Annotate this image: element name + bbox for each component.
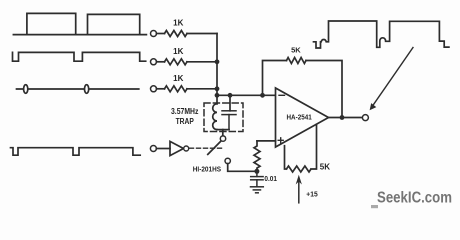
input terminal row 4 (gate) <box>150 146 156 152</box>
wire R1 to bus <box>187 33 217 35</box>
waveform W3 (burst line, row 3) <box>17 85 139 94</box>
svg-text:+15: +15 <box>306 189 317 198</box>
svg-text:1K: 1K <box>173 74 183 83</box>
svg-text:5K: 5K <box>320 162 330 171</box>
waveform W1 (luminance pulses, row 1) <box>13 13 146 34</box>
capacitor C1 (trap cap) <box>222 111 236 130</box>
resistor R5 5K (feedback) <box>287 58 307 64</box>
inductor L1 <box>213 104 217 130</box>
dashed control line <box>190 147 225 149</box>
wire row3 terminal to R3 <box>157 88 165 90</box>
wire trap bottom lead <box>222 130 224 136</box>
junction cap node <box>254 169 259 174</box>
junction bus corner <box>215 93 220 98</box>
wire feedback loop <box>263 61 343 118</box>
svg-text:5K: 5K <box>291 46 301 55</box>
wire row1 terminal to R1 <box>157 33 165 35</box>
resistor R4 (to bypass cap) <box>254 141 260 171</box>
waveform W5 (output video) <box>314 21 449 48</box>
wire trap bottom bar <box>217 129 229 131</box>
waveform W4 (gate pulses, row 4) <box>11 148 141 156</box>
wire gate terminal to inverter <box>156 148 170 150</box>
wire cap top lead <box>229 95 231 111</box>
junction bus row3 <box>215 86 220 91</box>
wire R3 to bus <box>187 88 217 90</box>
svg-text:SeekIC.com: SeekIC.com <box>377 189 452 206</box>
capacitor C2 0.01 <box>251 171 263 186</box>
node summing junction <box>260 93 265 98</box>
input terminal row 3 <box>151 86 157 92</box>
switch S1 top contact <box>220 136 225 141</box>
inverter U2 bubble <box>184 146 189 151</box>
wire R2 to bus <box>187 61 217 63</box>
junction output node <box>340 115 345 120</box>
svg-text:1K: 1K <box>173 19 183 28</box>
U1 minus sign <box>279 94 285 96</box>
svg-text:TRAP: TRAP <box>176 117 194 126</box>
inverter U2 <box>170 141 184 155</box>
+15 supply arrow <box>298 179 300 203</box>
trap box (dashed) <box>204 103 243 132</box>
U1 plus sign <box>278 138 283 143</box>
wire row2 terminal to R2 <box>157 61 165 63</box>
watermark fragment <box>371 205 378 208</box>
svg-text:HI-201HS: HI-201HS <box>193 166 222 173</box>
wire bus corner down to inductor <box>216 95 218 104</box>
svg-text:HA-2541: HA-2541 <box>287 113 312 122</box>
ground <box>251 187 264 193</box>
switch S1 blade <box>208 142 221 155</box>
svg-text:3.57MHz: 3.57MHz <box>171 107 198 116</box>
arrow to output terminal <box>370 48 413 111</box>
svg-text:1K: 1K <box>173 47 183 56</box>
output terminal <box>362 115 368 121</box>
resistor R3 1K <box>165 86 188 92</box>
resistor R1 1K <box>165 31 188 37</box>
svg-text:0.01: 0.01 <box>264 174 277 183</box>
input terminal row 2 <box>151 59 157 65</box>
junction trap tap <box>228 93 233 98</box>
wire noninverting input <box>257 140 276 142</box>
wire bus to op-amp inverting input <box>217 94 276 96</box>
wire output <box>329 117 363 119</box>
waveform W2 (sync pulses, row 2) <box>13 52 146 61</box>
wire summing bus <box>216 34 218 96</box>
junction bus row2 <box>215 59 220 64</box>
switch S1 bottom contact <box>225 158 230 163</box>
op-amp U1 HA-2541 <box>276 88 329 147</box>
resistor R2 1K <box>165 59 188 65</box>
input terminal row 1 <box>151 31 157 37</box>
wire switch to cap junction <box>228 164 255 172</box>
resistor R6 5K (gain set) <box>285 124 317 172</box>
